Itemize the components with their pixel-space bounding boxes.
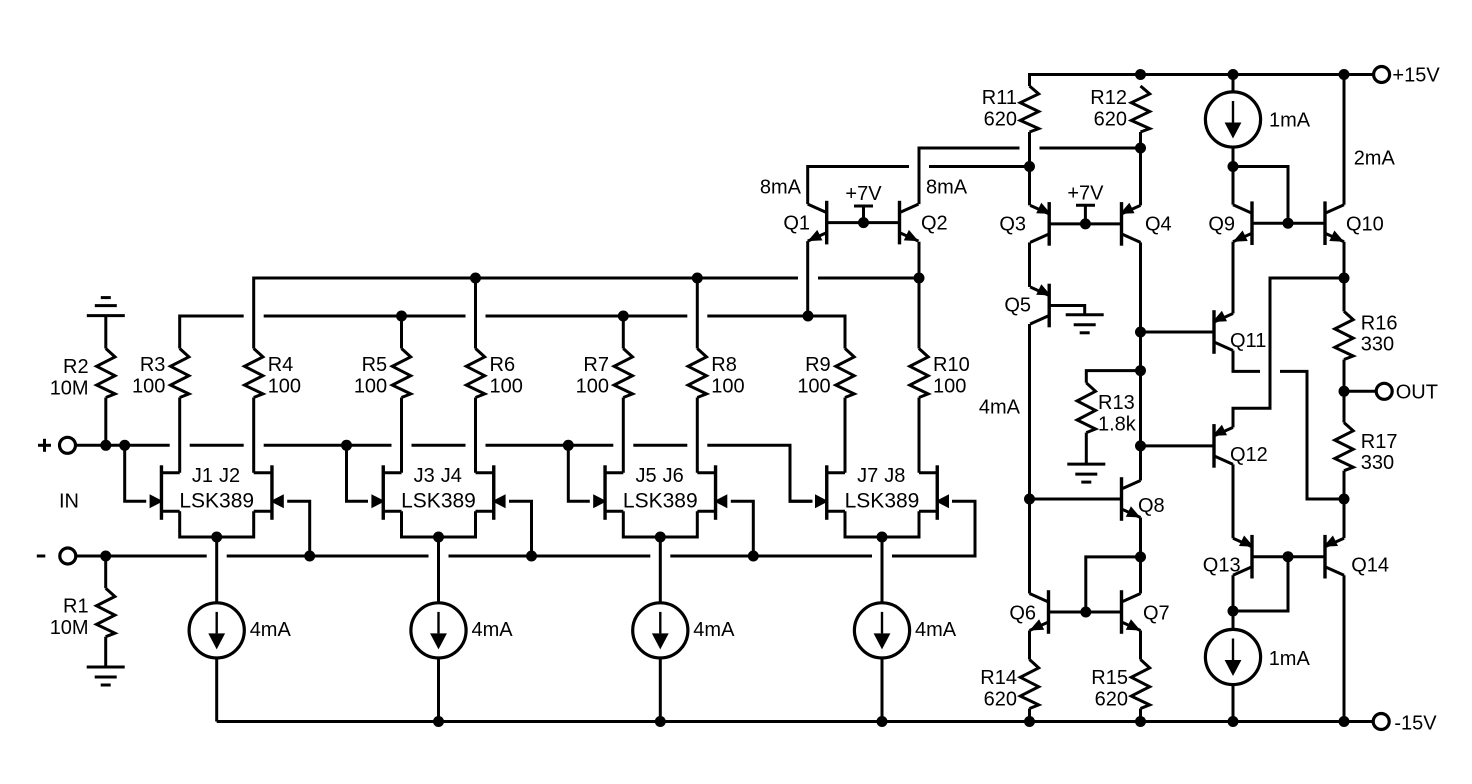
svg-text:8mA: 8mA [926,177,968,199]
svg-text:R8: R8 [711,354,737,376]
svg-text:R3: R3 [140,354,166,376]
jfet J8 [936,465,939,520]
label - polarity mark [37,555,46,558]
svg-text:4mA: 4mA [250,619,292,641]
wire source to current source 3 [659,537,662,603]
svg-text:LSK389: LSK389 [623,490,698,513]
svg-text:620: 620 [1095,689,1128,711]
svg-text:1mA: 1mA [1269,648,1311,670]
jfet J5 [603,465,606,520]
wire R5 bottom [400,398,403,473]
node - rail / R1 junction [100,551,111,562]
wire Q9 Q10 base tie [1252,222,1325,225]
node Q10 emitter / R16 [1339,273,1350,284]
svg-text:R7: R7 [583,354,609,376]
wire R10 bottom [918,398,921,473]
wire J7 gate tap [790,445,812,501]
wire Q8 base [1030,498,1122,501]
terminal + input [60,437,76,453]
svg-text:Q9: Q9 [1208,214,1235,236]
svg-text:R1: R1 [63,596,89,618]
wire R2 top [104,316,107,349]
wire Q1 Q2 base tie [827,221,900,224]
svg-text:J6: J6 [663,465,684,487]
wire OUT to R17 [1343,391,1346,422]
wire current source 2 to rail [437,658,440,722]
wire Q4 collector run [1139,242,1142,480]
svg-text:+7V: +7V [1067,183,1104,205]
terminal - input [60,548,76,564]
svg-text:R17: R17 [1361,431,1398,453]
wire R6 top [474,278,477,349]
wire +15V top rail [1030,75,1375,87]
svg-text:Q12: Q12 [1230,444,1268,466]
svg-text:LSK389: LSK389 [845,490,920,513]
wire R7 top [622,316,625,349]
svg-text:R12: R12 [1090,87,1127,109]
wire J3 gate tap [347,445,369,501]
svg-text:620: 620 [984,109,1017,131]
svg-text:Q5: Q5 [1004,295,1031,317]
wire R15 bottom [1139,709,1142,722]
node + rail / J1 gate junction [119,440,130,451]
node R12 / Q2 collector [1135,143,1146,154]
wire Q12 base [1141,444,1215,447]
jfet J2 [270,465,273,520]
svg-text:4mA: 4mA [693,619,735,641]
wire Q6 emitter [1028,631,1031,660]
node +7V tap Q3Q4 [1080,218,1091,229]
svg-text:Q10: Q10 [1346,214,1384,236]
svg-text:Q11: Q11 [1230,330,1266,352]
wire R1 bottom [104,637,107,667]
transistor Q12 [1212,424,1215,468]
svg-text:100: 100 [268,376,301,398]
svg-text:Q7: Q7 [1143,603,1170,625]
svg-text:J5: J5 [635,465,656,487]
transistor Q9 [1250,201,1253,245]
node bottom rail / R15 [1135,716,1146,727]
node upper bus / Q2 emitter [914,273,925,284]
wire Q2 emitter [918,242,921,278]
svg-text:Q1: Q1 [783,213,810,235]
wire Q5 base [1049,306,1085,315]
svg-text:4mA: 4mA [472,619,514,641]
wire Q12 collector [1232,464,1235,538]
svg-text:J7: J7 [857,465,878,487]
node + rail / R2 junction [100,440,111,451]
svg-text:100: 100 [711,376,744,398]
svg-text:4mA: 4mA [979,397,1021,419]
wire source to current source 1 [215,537,218,603]
node OUT [1339,386,1350,397]
wire R3 bottom [178,398,181,473]
current source I3 4mA [633,603,688,658]
svg-text:1mA: 1mA [1269,110,1311,132]
svg-text:620: 620 [984,689,1017,711]
svg-text:R13: R13 [1098,392,1135,414]
resistor R4 [245,349,263,398]
wire R16 to OUT [1343,360,1346,392]
ground below R1 [87,666,125,669]
node source tie pair 1 [211,532,222,543]
node upper bus / R8 [692,273,703,284]
wire R13 bottom [1085,433,1088,465]
wire J1 gate tap [125,445,147,501]
wire R8 bottom [696,398,699,473]
resistor R9 [836,349,854,398]
svg-text:J4: J4 [441,465,462,487]
node Q4 collector / Q11 base [1135,327,1146,338]
svg-text:R16: R16 [1361,313,1398,335]
current source I4 4mA [854,603,909,658]
transistor Q4 [1120,202,1123,246]
wire R16 top [1343,278,1346,311]
wire R11 bottom [1028,132,1031,205]
wire source to current source 4 [881,537,884,603]
node - rail / J6 gate junction [748,551,759,562]
wire J1 J2 source tie [180,511,254,537]
resistor R10 [910,349,928,398]
wire mirror link to bases [1233,167,1288,224]
wire Q14 emitter [1343,499,1346,538]
wire upper drain bus [254,278,798,349]
svg-text:LSK389: LSK389 [179,490,254,513]
resistor R11 [1020,86,1038,132]
svg-text:10M: 10M [50,617,89,639]
wire R4 bottom [252,398,255,473]
svg-text:R4: R4 [268,354,294,376]
current source I6 1mA [1205,629,1260,684]
transistor Q14 [1323,535,1326,579]
node bottom rail / R14 [1024,716,1035,727]
svg-text:Q14: Q14 [1351,555,1389,577]
svg-text:R6: R6 [490,354,516,376]
node Q4 collector / R13 [1135,365,1146,376]
node Q8 emitter / Q7 link [1135,551,1146,562]
svg-text:4mA: 4mA [915,619,957,641]
resistor R17 [1335,423,1353,471]
node source tie pair 3 [655,532,666,543]
svg-text:+15V: +15V [1392,65,1440,87]
svg-text:100: 100 [132,376,165,398]
wire current source 1 to rail [215,658,218,722]
wire Q13 base-collector link [1233,557,1288,611]
svg-text:Q3: Q3 [999,214,1026,236]
ground below R13 [1067,463,1105,466]
wire Q9 collector [1232,167,1235,205]
svg-text:8mA: 8mA [760,177,802,199]
svg-text:OUT: OUT [1396,382,1438,404]
wire J5 gate tap [568,445,590,501]
svg-text:R15: R15 [1091,667,1128,689]
svg-text:100: 100 [576,376,609,398]
node Q13 Q14 base link [1283,551,1294,562]
jfet J6 [714,465,717,520]
wire Q6 collector [1028,592,1031,595]
resistor R5 [392,349,410,398]
ground above R2 [87,314,125,317]
resistor R13 [1077,383,1095,433]
node Q5 collector / Q8 base [1024,494,1035,505]
node bottom rail / Q14 [1339,716,1350,727]
transistor Q2 [898,201,901,245]
node +7V tap Q1Q2 [858,217,869,228]
svg-text:R2: R2 [63,356,89,378]
terminal OUT [1376,383,1392,399]
svg-text:620: 620 [1094,109,1127,131]
wire R13 top [1086,371,1140,383]
resistor R7 [614,349,632,398]
resistor R14 [1020,660,1038,709]
node lower bus / R5 [396,311,407,322]
wire Q5 collector run [1028,324,1031,594]
node Q9 Q10 base tie [1283,218,1294,229]
svg-text:R9: R9 [805,354,831,376]
svg-text:J1: J1 [192,465,213,487]
svg-text:+7V: +7V [845,183,882,205]
resistor R3 [171,349,189,398]
wire J6 gate tap [731,501,754,556]
wire top rail to I5 [1232,75,1235,92]
wire Q11 base [1141,331,1215,334]
transistor Q8 [1120,477,1123,521]
svg-text:2mA: 2mA [1354,148,1396,170]
wire R7 bottom [622,398,625,473]
svg-text:Q6: Q6 [1009,603,1036,625]
wire R9 bottom [844,398,847,473]
svg-text:J3: J3 [414,465,435,487]
wire Q14 collector [1343,575,1346,721]
wire Q10 emitter [1343,242,1346,278]
svg-text:Q13: Q13 [1203,555,1241,577]
wire OUT [1344,390,1377,393]
svg-text:-15V: -15V [1394,713,1437,735]
wire Q13 to I6 [1232,611,1235,629]
node top rail / Q10 [1339,69,1350,80]
wire R5 top [400,316,403,349]
svg-text:J2: J2 [219,465,240,487]
current source I1 4mA [189,603,244,658]
wire J5 J6 source tie [623,511,697,537]
node bottom rail / current source 3 [655,716,666,727]
resistor R1 [97,588,115,637]
svg-text:100: 100 [490,376,523,398]
resistor R12 [1131,86,1149,132]
resistor R8 [688,349,706,398]
wire R6 bottom [474,398,477,473]
current source I2 4mA [411,603,466,658]
jfet J7 [825,465,828,520]
transistor Q6 [1047,590,1050,634]
node top rail / I5 [1228,69,1239,80]
wire Q3 Q4 base tie [1049,222,1121,225]
wire R1 top [104,556,107,588]
node bottom rail / current source 4 [877,716,888,727]
transistor Q10 [1323,201,1326,245]
node I5 / Q9 collector / mirror link [1228,161,1239,172]
jfet J3 [382,465,385,520]
svg-text:J8: J8 [884,465,905,487]
svg-text:100: 100 [933,376,966,398]
node lower bus / Q1 emitter [803,311,814,322]
svg-text:330: 330 [1361,452,1394,474]
wire Q9 emitter [1232,242,1235,314]
svg-text:Q8: Q8 [1138,495,1165,517]
node top rail / R12 [1135,69,1146,80]
wire Q3 collector to Q5 [1028,242,1031,287]
svg-text:R14: R14 [980,667,1017,689]
current source I5 1mA [1205,92,1260,147]
supply +7V tap for Q1 Q2 [854,205,873,208]
ground at Q5 base [1066,313,1104,316]
wire Q7 base-collector link [1086,557,1141,612]
wire Q8 emitter [1139,518,1142,594]
terminal +15V [1374,67,1390,83]
transistor Q3 [1047,202,1050,246]
wire I5 to Q9 [1232,147,1235,166]
transistor Q13 [1250,535,1253,579]
wire source to current source 2 [437,537,440,603]
wire Q1 collector [808,167,909,205]
wire Q12 emitter feed [1233,278,1344,427]
wire Q2 collector [919,148,1020,204]
wire + input rail [75,444,170,447]
wire - input rail [76,555,207,558]
resistor R6 [466,349,484,398]
wire J3 J4 source tie [402,511,476,537]
wire R10 top [918,278,921,349]
transistor Q7 [1120,590,1123,634]
node - rail / J4 gate junction [526,551,537,562]
wire R2 bottom [104,398,107,446]
node Q13 collector / I6 [1228,606,1239,617]
wire -15V bottom rail [217,720,1374,723]
wire Q10 collector [1343,75,1346,205]
svg-text:Q2: Q2 [921,213,948,235]
wire J2 gate tap [287,501,310,556]
wire Q1 emitter [806,241,809,316]
node lower bus / R7 [618,311,629,322]
wire lower drain bus [180,316,244,349]
transistor Q5 [1047,284,1050,328]
wire current source 4 to rail [881,658,884,722]
node Q6 Q7 base link [1080,607,1091,618]
transistor Q1 [825,201,828,245]
wire J4 gate tap [509,501,532,556]
svg-text:100: 100 [354,376,387,398]
svg-text:LSK389: LSK389 [401,490,476,513]
wire R8 top [696,278,699,349]
wire J7 J8 source tie [845,511,919,537]
resistor R2 [97,349,115,398]
node source tie pair 4 [877,532,888,543]
svg-text:Q4: Q4 [1145,214,1172,236]
wire R12 bottom [1139,132,1142,205]
wire current source 3 to rail [659,658,662,722]
wire Q6 Q7 base tie [1049,611,1122,614]
node upper bus / R6 [470,273,481,284]
wire Q7 emitter [1139,631,1142,660]
svg-text:330: 330 [1361,334,1394,356]
node - rail / J2 gate junction [304,551,315,562]
node source tie pair 2 [433,532,444,543]
wire Q13 collector [1232,575,1235,611]
supply +7V tap for Q3 Q4 [1076,204,1095,207]
node bottom rail / current source 2 [433,716,444,727]
svg-text:1.8k: 1.8k [1098,414,1137,436]
node bottom rail / I6 [1228,716,1239,727]
node R17 / Q14 emitter [1339,494,1350,505]
wire Q11 collector run [1233,351,1260,372]
transistor Q11 [1212,310,1215,354]
wire R14 bottom [1028,709,1031,722]
svg-text:R11: R11 [982,87,1017,109]
jfet J4 [492,465,495,520]
resistor R16 [1335,311,1353,359]
label + polarity mark [38,444,51,447]
svg-text:IN: IN [59,491,79,513]
svg-text:10M: 10M [50,378,89,400]
node R11 / Q1 collector [1024,161,1035,172]
node Q4 collector / Q12 base [1135,440,1146,451]
wire I6 to rail [1232,685,1235,722]
terminal -15V [1373,714,1389,730]
svg-text:R10: R10 [933,354,970,376]
node + rail / J3 gate junction [341,440,352,451]
node + rail / J5 gate junction [563,440,574,451]
svg-text:100: 100 [797,376,830,398]
jfet J1 [160,465,163,520]
svg-text:R5: R5 [362,354,388,376]
resistor R15 [1131,660,1149,709]
wire Q13 Q14 base tie [1252,555,1325,558]
wire R17 bottom [1343,471,1346,499]
